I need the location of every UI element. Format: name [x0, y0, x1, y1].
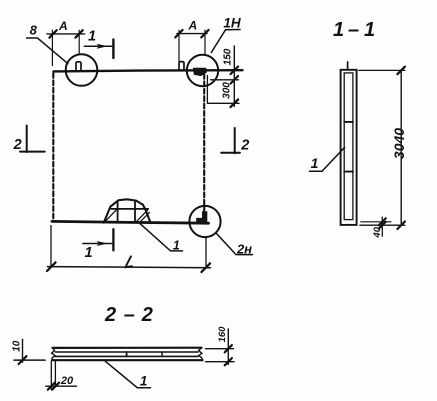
svg-text:150: 150 — [223, 48, 234, 65]
svg-text:2: 2 — [13, 137, 22, 153]
svg-text:1: 1 — [364, 19, 375, 41]
svg-text:A: A — [187, 19, 197, 33]
svg-text:1: 1 — [173, 238, 180, 252]
svg-text:1: 1 — [140, 373, 148, 388]
svg-text:–: – — [348, 19, 359, 41]
svg-text:1: 1 — [88, 29, 96, 45]
svg-text:8: 8 — [30, 23, 38, 38]
svg-text:3040: 3040 — [391, 128, 407, 159]
svg-text:–: – — [124, 304, 135, 326]
svg-text:2н: 2н — [236, 241, 252, 256]
svg-text:1: 1 — [311, 155, 319, 171]
svg-text:A: A — [58, 19, 68, 33]
svg-text:1: 1 — [333, 19, 344, 41]
svg-text:2: 2 — [141, 304, 153, 326]
svg-text:1: 1 — [84, 245, 92, 261]
svg-text:160: 160 — [217, 326, 228, 343]
svg-text:1Н: 1Н — [223, 15, 241, 30]
svg-text:20: 20 — [60, 375, 74, 387]
svg-text:2: 2 — [240, 138, 249, 154]
svg-text:2: 2 — [104, 304, 116, 326]
svg-text:40: 40 — [372, 226, 383, 238]
svg-text:10: 10 — [12, 340, 23, 352]
svg-text:300: 300 — [222, 82, 233, 99]
